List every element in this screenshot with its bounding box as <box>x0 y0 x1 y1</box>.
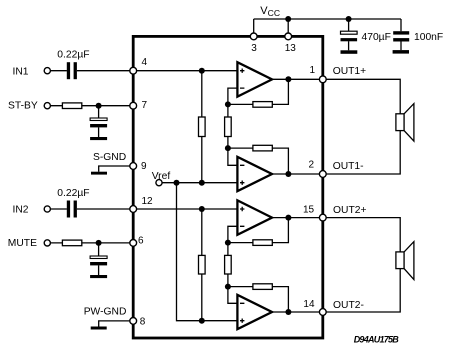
svg-text:3: 3 <box>251 43 257 54</box>
terminal ST-BY <box>44 103 50 109</box>
speaker LS2 <box>396 242 414 280</box>
svg-text:MUTE: MUTE <box>8 238 37 249</box>
capacitor MUTE to ground <box>90 256 107 265</box>
ground MUTE cap <box>90 275 107 278</box>
wire VCC rail <box>254 19 401 36</box>
wire R1 leads <box>201 71 203 183</box>
svg-text:S-GND: S-GND <box>93 152 126 163</box>
svg-text:IN1: IN1 <box>13 66 29 77</box>
pin 12 <box>130 206 137 213</box>
pin 7 <box>130 102 137 109</box>
svg-text:8: 8 <box>140 316 146 327</box>
junction node U4 out <box>285 309 291 315</box>
junction node VCC/pin13 <box>285 16 291 22</box>
svg-text:VCC: VCC <box>260 5 280 18</box>
wire MUTE to pin 6 <box>51 242 134 244</box>
svg-text:PW-GND: PW-GND <box>84 307 127 318</box>
resistor R3 <box>199 255 206 274</box>
terminal Vref <box>156 180 162 186</box>
ground ST-BY cap <box>90 137 107 140</box>
op-amp U2 <box>237 157 272 191</box>
resistor R2 <box>225 117 232 137</box>
svg-text:7: 7 <box>142 100 148 111</box>
pin 9 <box>130 163 137 170</box>
ground S-GND <box>91 172 107 175</box>
wire Vref drop to U4 + input <box>177 183 238 321</box>
wire IN1 to pin 4 to op-amp U1 + input <box>51 70 238 72</box>
speaker LS1 <box>396 104 414 142</box>
wire U3 feedback loop <box>228 218 289 243</box>
pin 8 <box>130 318 137 325</box>
svg-text:OUT1+: OUT1+ <box>333 66 366 77</box>
junction node U4+/R3 <box>199 318 205 324</box>
svg-text:2: 2 <box>309 160 315 171</box>
capacitor C4 100nF <box>393 31 409 41</box>
svg-text:OUT2-: OUT2- <box>333 300 364 311</box>
pin 3 <box>250 33 257 40</box>
junction node U1 out <box>285 76 291 82</box>
pin 1 <box>319 76 326 83</box>
pin 13 <box>285 33 292 40</box>
resistor U1 feedback <box>253 102 272 108</box>
svg-text:OUT2+: OUT2+ <box>333 205 366 216</box>
IC box U5 TDA7375 <box>133 36 323 338</box>
capacitor 0.22uF IN2 <box>67 201 77 218</box>
pin 4 <box>130 67 137 74</box>
svg-text:0.22µF: 0.22µF <box>57 49 89 60</box>
junction node Vref/R1 <box>199 180 205 186</box>
svg-text:6: 6 <box>138 236 144 247</box>
junction node VCC/C3 <box>346 16 352 22</box>
resistor U3 feedback <box>253 240 272 246</box>
pin 15 <box>319 214 326 221</box>
svg-text:9: 9 <box>141 161 147 172</box>
terminal IN2 <box>44 206 50 212</box>
resistor MUTE series <box>62 240 81 246</box>
svg-text:D94AU175B: D94AU175B <box>354 335 400 345</box>
svg-text:OUT1-: OUT1- <box>333 161 364 172</box>
pin 2 <box>319 171 326 178</box>
svg-text:ST-BY: ST-BY <box>8 100 38 111</box>
wire U3 output pin 15 OUT2+ <box>272 218 400 252</box>
terminal MUTE <box>44 240 50 246</box>
svg-text:1: 1 <box>310 65 316 76</box>
wire S-GND pin 9 <box>99 166 133 172</box>
wire PW-GND pin 8 <box>99 321 133 327</box>
resistor U4 feedback <box>253 284 272 290</box>
pin 14 <box>319 309 326 316</box>
svg-text:15: 15 <box>303 204 315 215</box>
capacitor ST-BY to ground <box>90 118 107 127</box>
svg-text:470µF: 470µF <box>362 32 391 43</box>
junction node U2 out <box>285 171 291 177</box>
junction node MUTE cap <box>96 240 102 246</box>
wire R3 leads <box>201 209 203 321</box>
junction node ST-BY cap <box>96 103 102 109</box>
wire C4 100nF lower lead <box>400 41 402 50</box>
wire U1 output to pin 1 to speaker <box>272 79 400 114</box>
wire U4 output pin 14 OUT2- <box>272 269 400 312</box>
wire U1 feedback loop <box>228 79 289 104</box>
wire IN2 to pin 12 to U3 + input <box>51 208 238 210</box>
junction node U4 fb <box>225 284 231 290</box>
svg-text:0.22µF: 0.22µF <box>57 188 89 199</box>
svg-text:12: 12 <box>142 196 154 207</box>
resistor R4 <box>225 255 232 274</box>
svg-text:4: 4 <box>142 57 148 68</box>
pin 6 <box>130 240 137 247</box>
svg-text:14: 14 <box>303 299 315 310</box>
junction node U2 fb <box>225 145 231 151</box>
svg-text:IN2: IN2 <box>13 205 29 216</box>
capacitor C3 470uF <box>341 31 358 41</box>
junction node pin4/R1 <box>199 68 205 74</box>
svg-text:100nF: 100nF <box>414 32 443 43</box>
junction node U3 fb <box>225 240 231 246</box>
ground C3 <box>341 50 358 54</box>
wire R4 leads <box>227 243 229 287</box>
resistor ST-BY series <box>62 103 81 109</box>
ground PW-GND <box>91 327 107 330</box>
wire U4 feedback loop <box>228 287 289 312</box>
ground C4 <box>393 50 409 54</box>
wire ST-BY cap branch <box>98 106 100 137</box>
junction node Vref drop <box>174 180 180 186</box>
wire Vref to U2 + input <box>162 182 237 184</box>
wire U2 output pin 2 OUT1- <box>272 131 400 174</box>
op-amp U3 <box>237 200 272 234</box>
wire U2 feedback loop <box>228 148 289 174</box>
wire R2 leads <box>227 104 229 148</box>
wire C3 470uF lower lead <box>348 41 350 50</box>
capacitor 0.22uF IN1 <box>67 62 77 79</box>
resistor R1 <box>199 117 206 137</box>
svg-text:13: 13 <box>285 43 297 54</box>
wire MUTE cap branch <box>98 243 100 275</box>
junction node U1 fb <box>225 101 231 107</box>
op-amp U4 <box>237 295 272 329</box>
op-amp U1 <box>237 62 272 96</box>
resistor U2 feedback <box>253 145 272 151</box>
junction node U3 out <box>285 215 291 221</box>
wire ST-BY to pin 7 <box>51 105 134 107</box>
svg-text:Vref: Vref <box>152 171 171 182</box>
junction node pin12/R3 <box>199 206 205 212</box>
terminal IN1 <box>44 68 50 74</box>
